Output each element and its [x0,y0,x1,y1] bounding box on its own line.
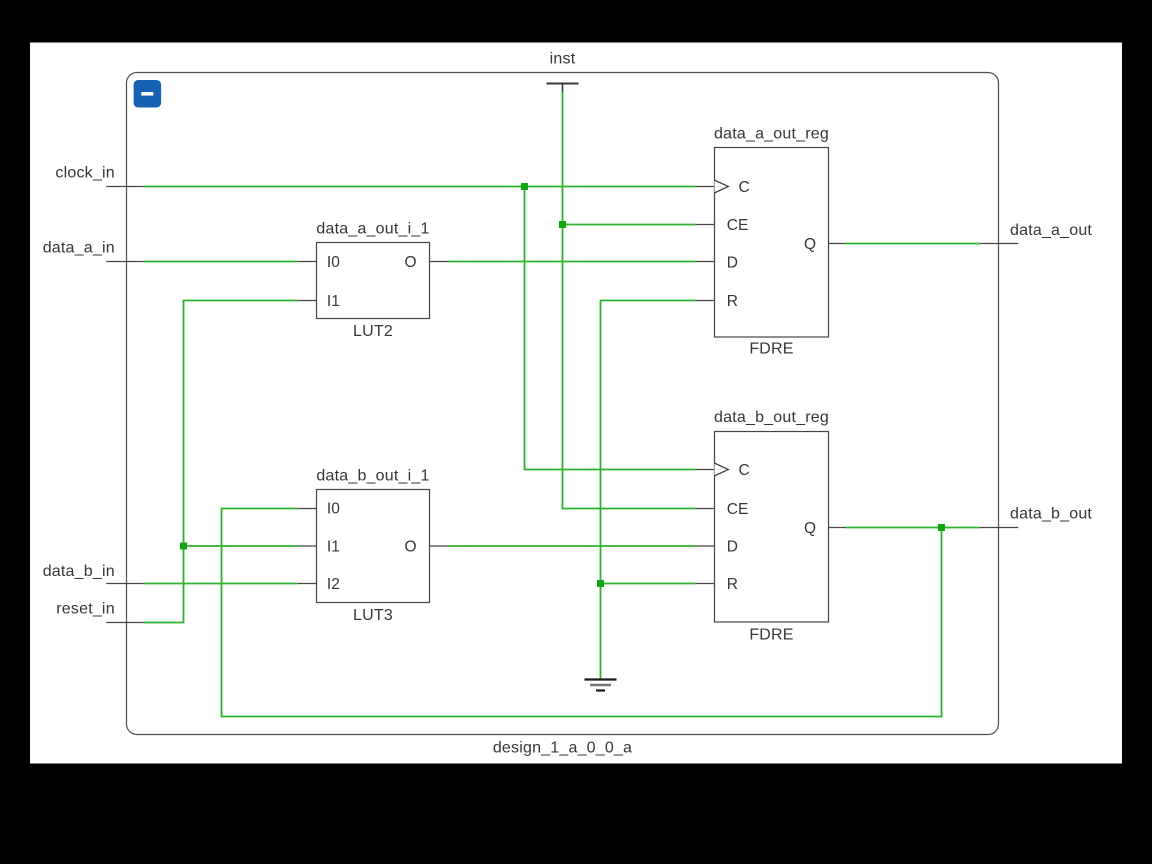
svg-text:clock_in: clock_in [55,165,114,182]
ground symbol [585,680,617,691]
junction on clock net [521,183,528,190]
port stub data_a_in [106,261,144,263]
pin stub Q [829,243,846,245]
svg-text:O: O [404,254,416,271]
port stub data_b_out [980,527,1018,529]
pin stub I1 [297,545,316,547]
wire R net FDRE1 R to ground [601,301,696,680]
svg-text:FDRE: FDRE [749,341,793,358]
svg-text:D: D [727,254,738,271]
svg-text:data_b_out_i_1: data_b_out_i_1 [316,468,429,485]
svg-text:I0: I0 [327,254,340,271]
wire R branch to FDRE2 R [601,583,696,585]
junction on R net [597,580,604,587]
power symbol (VCC) for inst [547,84,579,92]
wire VCC net vertical to FDRE2 CE [563,91,696,509]
wire data_b_in to LUT3 I2 [144,583,298,585]
svg-text:data_a_out_i_1: data_a_out_i_1 [316,221,429,238]
port stub data_b_in [106,583,144,585]
svg-text:design_1_a_0_0_a: design_1_a_0_0_a [493,740,632,757]
wire LUT2 O to FDRE1 D [449,261,696,263]
pin stub C [695,469,714,471]
wire reset branch to LUT3 I1 [184,545,298,547]
FDRE data_a_out_reg [695,126,845,358]
svg-text:Q: Q [804,520,816,537]
svg-text:I1: I1 [327,539,340,556]
pin stub D [695,545,714,547]
junction on VCC net [559,221,566,228]
wire VCC branch to FDRE1 CE [563,224,696,226]
pin stub CE [695,508,714,510]
svg-text:data_a_out: data_a_out [1010,222,1092,239]
wire data_a_in to LUT2 I0 [144,261,298,263]
pin stub Q [829,527,846,529]
svg-text:inst: inst [550,51,576,68]
pin stub CE [695,224,714,226]
svg-text:data_b_out: data_b_out [1010,506,1092,523]
junction on data_b_out net [938,524,945,531]
wire reset_in to LUT2 I1 [144,301,298,623]
clock triangle [715,463,729,476]
LUT3 data_b_out_i_1 [297,468,448,625]
collapse button [134,80,162,108]
wire clock net: clock_in to FDRE1 C [144,186,696,188]
pin stub I2 [297,583,316,585]
svg-text:D: D [727,538,738,555]
svg-text:I0: I0 [327,501,340,518]
svg-text:C: C [739,462,750,479]
wire FDRE1 Q to data_a_out [846,243,981,245]
svg-text:data_a_in: data_a_in [43,239,115,256]
port stub data_a_out [980,243,1018,245]
svg-text:I1: I1 [327,293,340,310]
svg-text:CE: CE [727,217,749,234]
svg-text:reset_in: reset_in [56,601,115,618]
svg-text:C: C [739,179,750,196]
pin stub C [695,186,714,188]
pin stub I0 [297,261,316,263]
svg-text:O: O [404,539,416,556]
pin stub D [695,261,714,263]
wire LUT3 O to FDRE2 D [449,545,696,547]
port stub clock_in [106,186,144,188]
pin stub I1 [297,300,316,302]
svg-text:R: R [727,293,738,310]
svg-text:LUT2: LUT2 [353,323,393,340]
wire feedback data_b_out to LUT3 I0 [222,509,942,717]
svg-text:R: R [727,576,738,593]
junction on reset net [180,543,187,550]
pin stub I0 [297,508,316,510]
svg-text:Q: Q [804,236,816,253]
svg-text:FDRE: FDRE [749,626,793,643]
svg-text:data_a_out_reg: data_a_out_reg [714,126,829,143]
port stub reset_in [106,622,144,624]
svg-text:I2: I2 [327,576,340,593]
wire clock branch to FDRE2 C [525,187,696,470]
svg-text:data_b_out_reg: data_b_out_reg [714,409,829,426]
pin stub R [695,583,714,585]
svg-text:data_b_in: data_b_in [43,563,115,580]
pin stub R [695,300,714,302]
pin stub O [430,261,449,263]
wire FDRE2 Q to data_b_out [846,527,981,529]
pin stub O [430,545,449,547]
LUT2 data_a_out_i_1 [297,221,448,340]
clock triangle [715,180,729,193]
FDRE data_b_out_reg [695,409,845,643]
svg-text:CE: CE [727,501,749,518]
module boundary design_1_a_0_0_a [127,73,999,735]
svg-text:LUT3: LUT3 [353,607,393,624]
